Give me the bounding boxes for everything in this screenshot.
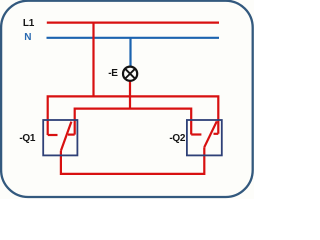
net L1	[23, 18, 219, 29]
switch -Q1	[19, 120, 77, 155]
wire rail2 lamp return to switch contacts	[75, 109, 192, 135]
svg-text:L1: L1	[23, 18, 35, 29]
svg-text:-Q2: -Q2	[169, 133, 186, 144]
wire common link Q1 to Q2	[61, 147, 204, 174]
wire rail1 L1 to switch contacts	[48, 96, 219, 135]
wire lamp to rail2	[129, 80, 131, 108]
svg-text:-Q1: -Q1	[19, 133, 36, 144]
switch -Q2	[169, 120, 221, 155]
net N	[24, 32, 219, 43]
svg-text:N: N	[24, 32, 31, 43]
svg-text:-E: -E	[108, 68, 118, 79]
wire L1 drop	[92, 23, 94, 97]
lamp -E	[108, 67, 137, 81]
wire N to lamp	[129, 38, 131, 67]
